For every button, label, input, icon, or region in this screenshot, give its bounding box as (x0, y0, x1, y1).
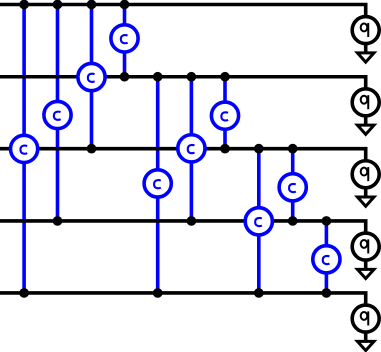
node: target dot of gate c4 on wire q4 (153, 288, 163, 298)
node: control dot of gate c3 on wire q0 (120, 0, 130, 9)
wire: vertical connector of gate c7 (q2 to q4) (257, 149, 261, 293)
gate c7: classical control circle with label c (q2 to q4) (245, 208, 272, 235)
node: target dot of gate c0 on wire q4 (19, 288, 29, 298)
node: control dot of gate c5 on wire q1 (187, 72, 197, 82)
wire: vertical connector of gate c4 (q1 to q4) (156, 77, 160, 293)
wire: vertical connector of gate c2 (q0 to q2) (90, 5, 94, 149)
gate c4: classical control circle with label c (q1 to q4) (144, 170, 171, 197)
terminal q4: output arrow head (357, 341, 374, 350)
node: target dot of gate c7 on wire q4 (254, 288, 264, 298)
node: control dot of gate c0 on wire q0 (19, 0, 29, 9)
wire: vertical connector of gate c6 (q1 to q2) (223, 77, 227, 149)
wire q3 (horizontal rail, corner down to output terminal) (0, 221, 366, 270)
node: target dot of gate c6 on wire q2 (220, 144, 230, 154)
node: target dot of gate c2 on wire q2 (87, 144, 97, 154)
node: control dot of gate c4 on wire q1 (153, 72, 163, 82)
wire q4 (horizontal rail, corner down to output terminal) (0, 293, 366, 342)
node: control dot of gate c7 on wire q2 (254, 144, 264, 154)
terminal q0: output circle with label q (352, 17, 379, 44)
node: target dot of gate c3 on wire q1 (120, 72, 130, 82)
gate c0: classical control circle with label c (q0 to q4) (11, 135, 38, 162)
terminal q4: output circle with label q (352, 305, 379, 332)
terminal q0: output arrow head (357, 53, 374, 62)
node: control dot of gate c1 on wire q0 (53, 0, 63, 9)
gate c6: classical control circle with label c (q1 to q2) (211, 102, 238, 129)
gate c5: classical control circle with label c (q1 to q3) (178, 135, 205, 162)
terminal q3: output circle with label q (352, 233, 379, 260)
gate c3: classical control circle with label c (q0 to q1) (111, 25, 138, 52)
terminal q3: output arrow head (357, 269, 374, 278)
terminal q1: output circle with label q (352, 89, 379, 116)
wire q2 (horizontal rail, corner down to output terminal) (0, 149, 366, 198)
wire: vertical connector of gate c8 (q2 to q3) (291, 149, 295, 221)
wire: vertical connector of gate c9 (q3 to q4) (325, 221, 329, 293)
node: target dot of gate c9 on wire q4 (322, 288, 332, 298)
node: control dot of gate c6 on wire q1 (220, 72, 230, 82)
terminal q2: output circle with label q (352, 161, 379, 188)
node: control dot of gate c2 on wire q0 (87, 0, 97, 9)
node: target dot of gate c1 on wire q3 (53, 216, 63, 226)
node: target dot of gate c5 on wire q3 (187, 216, 197, 226)
wire q0 (horizontal rail, corner down to output terminal) (0, 5, 366, 54)
node: control dot of gate c9 on wire q3 (322, 216, 332, 226)
wire q1 (horizontal rail, corner down to output terminal) (0, 77, 366, 126)
wire: vertical connector of gate c3 (q0 to q1) (123, 5, 127, 77)
terminal q2: output arrow head (357, 197, 374, 206)
node: target dot of gate c8 on wire q3 (288, 216, 298, 226)
gate c1: classical control circle with label c (q0 to q3) (44, 101, 71, 128)
node: control dot of gate c8 on wire q2 (288, 144, 298, 154)
gate c9: classical control circle with label c (q3 to q4) (313, 246, 340, 273)
wire: vertical connector of gate c0 (q0 to q4) (22, 5, 26, 293)
terminal q1: output arrow head (357, 125, 374, 134)
gate c8: classical control circle with label c (q2 to q3) (279, 174, 306, 201)
wire: vertical connector of gate c5 (q1 to q3) (190, 77, 194, 221)
wire: vertical connector of gate c1 (q0 to q3) (56, 5, 60, 221)
gate c2: classical control circle with label c (q0 to q2) (78, 63, 105, 90)
